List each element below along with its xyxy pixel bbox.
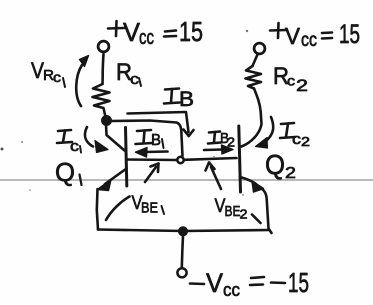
svg-text:2: 2 [285,165,296,182]
label +VCC = 15 (left) [108,16,203,49]
svg-text:15: 15 [288,267,309,298]
svg-text:B: B [151,132,161,149]
label -VCC = -15 [190,267,309,300]
svg-text:2: 2 [240,207,248,222]
arrow VRC1 [76,56,88,107]
label VBE1 [132,193,165,217]
label IC2 [280,123,310,149]
transistor Q2: emitter lead with arrow [240,177,264,192]
transistor Q1: base bar [126,128,127,187]
label VRC1 [31,58,65,87]
node B (base junction) [177,157,183,163]
wire: +VCC terminal to RC1 [103,54,104,84]
arrow IC1 [85,127,108,153]
svg-text:BE: BE [225,203,241,220]
wire: RC2 to Q2 collector [242,89,262,147]
svg-text:V: V [206,268,223,298]
svg-text:B: B [179,88,194,111]
wire: node B to Q1 base [127,158,177,161]
resistor R C1 [93,84,110,117]
label Q1 [55,157,82,187]
svg-text:cc: cc [301,30,317,51]
node C (emitter bus node) [179,228,187,236]
svg-text:2: 2 [301,134,310,149]
transistor Q1: emitter lead with arrow [98,169,127,191]
label IB1 [136,130,164,149]
wire: Q2 emitter down right edge [262,189,272,233]
label IC1 [57,130,81,155]
wire: node A to node B (base loop top) [110,121,183,157]
label RC2 [273,63,308,95]
arrow IC2 [256,117,274,148]
label VBE2 [215,196,261,223]
stray ink specks [1,30,249,196]
wire: Q1 emitter to emitter bus (left edge) [97,189,98,230]
wire: node B to Q2 base [184,158,236,160]
ruled line [0,179,373,181]
resistor RC2 [246,66,262,89]
label IB [164,88,194,111]
svg-text:15: 15 [179,16,203,47]
terminal +VCC (left) [98,41,109,52]
svg-text:2: 2 [296,76,308,95]
svg-text:cc: cc [223,280,240,300]
svg-text:15: 15 [339,19,360,49]
arrow IB2 [204,145,233,154]
label Q2 [265,149,296,182]
transistor Q2: base bar [239,126,241,192]
svg-text:c: c [287,73,295,89]
terminal -VCC [177,268,186,277]
node A (Q1 collector node) [102,116,110,124]
label +VCC = 15 (right) [270,19,360,51]
svg-text:c: c [130,71,140,88]
arrow VBE1 [145,164,159,183]
svg-text:c: c [70,138,80,155]
svg-text:V: V [123,17,141,47]
svg-text:V: V [285,23,301,49]
wire: emitter bus bottom [98,230,270,232]
label IB2 [208,130,235,150]
arrow IB1 [136,148,168,158]
svg-text:Q: Q [265,149,285,180]
svg-text:BE: BE [141,200,158,217]
svg-text:Q: Q [55,157,75,187]
transistor Q1: collector lead [106,124,125,151]
arrow VBE2 [206,163,222,190]
arrow IB [128,112,194,136]
wire: +VCC terminal to RC2 [253,55,258,67]
label RC1 [116,59,141,88]
arrow VBE1 leader curve [106,197,130,221]
wire: node C to -VCC terminal [182,235,183,268]
terminal +VCC (right) [254,43,265,54]
svg-text:c: c [53,69,61,85]
svg-text:cc: cc [139,27,154,49]
